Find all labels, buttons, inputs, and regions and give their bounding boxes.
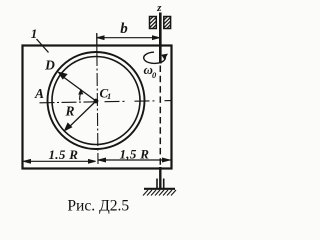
svg-text:1: 1 <box>31 26 38 41</box>
b dimension line <box>97 34 160 46</box>
radius arrow C1 to D <box>58 72 96 101</box>
left 1.5R dimension line <box>24 160 96 164</box>
ground hatching <box>143 190 176 196</box>
svg-text:Рис. Д2.5: Рис. Д2.5 <box>67 197 129 214</box>
z axis shaft bottom (solid) <box>159 167 161 189</box>
svg-text:A: A <box>34 86 44 101</box>
z axis dashed line inside plate <box>159 66 161 169</box>
ground line <box>144 188 175 190</box>
vertical center line extension (solid) above circle <box>96 33 98 53</box>
top bearing left hatched block <box>150 17 157 29</box>
circular channel outer circle <box>48 52 145 149</box>
z axis shaft top (solid) <box>159 13 162 64</box>
svg-text:1,5 R: 1,5 R <box>120 146 150 161</box>
plate (square) outline <box>23 46 172 169</box>
svg-text:1.5 R: 1.5 R <box>49 147 79 162</box>
svg-text:1: 1 <box>107 91 111 101</box>
bottom bearing walls <box>157 179 164 189</box>
angle arc with arrow at center <box>78 89 83 101</box>
svg-text:R: R <box>64 104 74 119</box>
omega0 rotation arrow (ellipse arc) <box>144 52 168 63</box>
svg-text:b: b <box>120 21 128 37</box>
horizontal center line (dash-dot) right part <box>98 101 172 102</box>
radius arrow C1 down-left with R label <box>65 101 96 131</box>
paper background <box>0 0 196 223</box>
leader line for label 1 <box>37 39 49 53</box>
svg-text:z: z <box>156 2 162 14</box>
circular channel inner circle <box>52 57 140 145</box>
top bearing right hatched block <box>164 17 171 29</box>
right 1,5R dimension line <box>99 158 171 162</box>
horizontal center line (dash-dot) through A and C1, left part <box>40 102 97 103</box>
svg-text:D: D <box>44 58 55 73</box>
center point C1 <box>94 99 99 104</box>
vertical center line (dash-dot) through C1 <box>97 53 98 164</box>
